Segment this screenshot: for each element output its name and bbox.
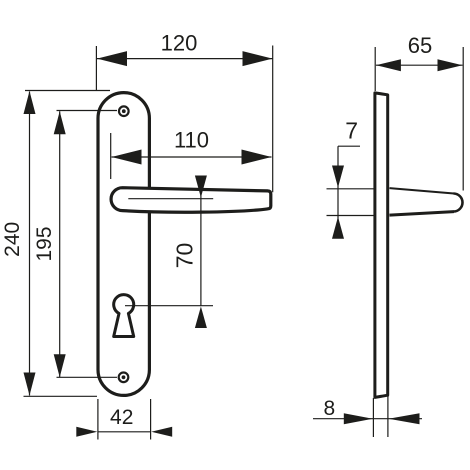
- svg-text:7: 7: [345, 117, 358, 143]
- svg-text:110: 110: [174, 127, 209, 152]
- svg-text:65: 65: [408, 33, 432, 58]
- svg-text:8: 8: [324, 397, 336, 420]
- svg-text:120: 120: [161, 31, 198, 56]
- svg-text:70: 70: [171, 243, 197, 269]
- svg-text:42: 42: [110, 406, 133, 429]
- svg-text:195: 195: [33, 226, 56, 261]
- svg-text:240: 240: [1, 222, 24, 257]
